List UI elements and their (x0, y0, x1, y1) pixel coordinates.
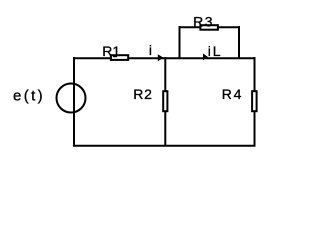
wire R3 loop right leg (238, 26, 240, 59)
svg-text:e(t): e(t) (13, 88, 45, 105)
svg-text:R4: R4 (222, 86, 243, 102)
voltage source e(t) (57, 84, 86, 113)
svg-text:R2: R2 (133, 86, 153, 102)
wire R2 branch (node junction at top) (164, 57, 166, 146)
svg-text:i: i (149, 42, 152, 58)
resistor R2 body (163, 91, 167, 111)
svg-text:R3: R3 (193, 14, 214, 30)
resistor R1 body (111, 55, 128, 60)
svg-text:R1: R1 (102, 43, 120, 59)
current arrow i (158, 54, 164, 61)
svg-text:iL: iL (208, 43, 223, 59)
wire left (73, 57, 75, 147)
wire right (254, 57, 256, 147)
label R1 digit foot serif (113, 55, 117, 57)
resistor R3 body (200, 25, 218, 30)
current arrow iL (203, 54, 208, 61)
resistor R4 body (252, 91, 257, 111)
wire bottom (73, 145, 256, 147)
wire R3 loop left leg (179, 26, 181, 59)
wire R3 loop top (179, 26, 241, 28)
wire top (node between R1, R2, R3 branches) (73, 57, 256, 59)
